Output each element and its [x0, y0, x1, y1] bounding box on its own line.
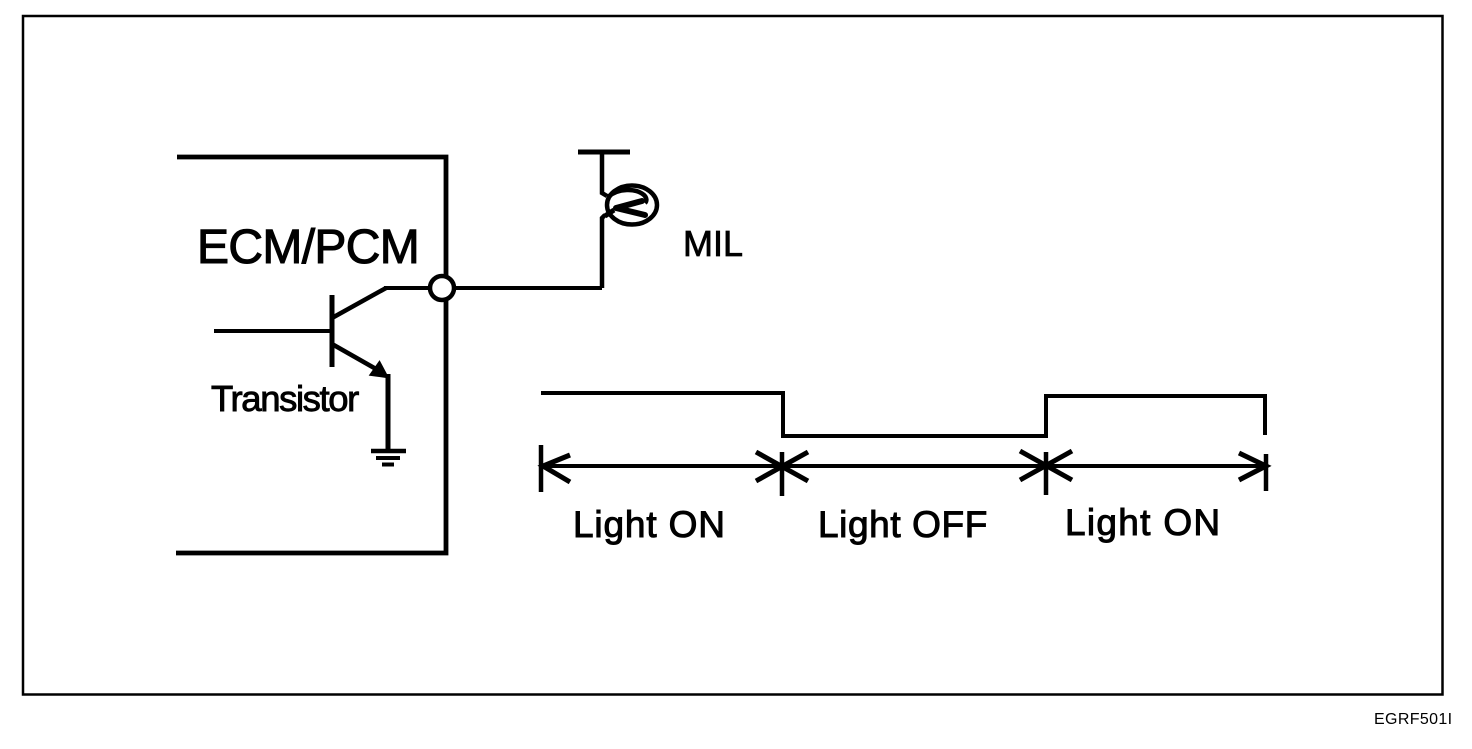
svg-text:MIL: MIL — [683, 223, 743, 264]
tick middle 2 — [1044, 452, 1049, 495]
tick middle 1 — [780, 452, 785, 496]
dimension arrow shaft — [543, 464, 1266, 468]
arrowhead right — [1239, 453, 1266, 480]
node A junction circle — [430, 276, 454, 300]
transistor Q1 emitter arrowhead — [370, 362, 388, 378]
tick left — [539, 445, 544, 492]
wire collector to node to lamp — [384, 286, 602, 290]
arrowhead left — [543, 455, 570, 482]
transistor Q1 base bar — [330, 295, 335, 367]
wire power bar to lamp — [602, 152, 607, 196]
svg-text:Transistor: Transistor — [211, 378, 359, 419]
svg-text:ECM/PCM: ECM/PCM — [197, 221, 419, 274]
power bar at top of lamp — [578, 150, 630, 155]
lamp filament coil — [608, 190, 646, 203]
waveform trace — [541, 393, 1265, 436]
lamp MIL bulb circle — [607, 186, 657, 225]
svg-text:Light ON: Light ON — [1065, 502, 1221, 543]
transistor Q1 collector diagonal — [332, 288, 386, 318]
svg-text:Light OFF: Light OFF — [818, 504, 988, 545]
transistor Q1 base lead wire — [214, 329, 332, 333]
arrow cross middle 1 — [756, 452, 808, 481]
wire lamp to node — [602, 215, 605, 288]
emitter to ground wire — [386, 374, 391, 451]
ECM/PCM box outline — [176, 157, 446, 553]
transistor Q1 emitter diagonal — [332, 344, 376, 369]
ground — [371, 451, 406, 465]
tick right — [1264, 454, 1269, 491]
arrow cross middle 2 — [1020, 451, 1072, 480]
svg-text:EGRF501I: EGRF501I — [1374, 711, 1452, 728]
svg-text:Light ON: Light ON — [573, 504, 726, 545]
